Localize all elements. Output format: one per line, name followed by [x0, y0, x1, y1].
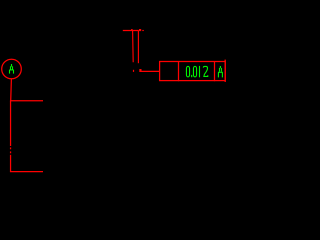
datum reference letter A (green, in frame)	[218, 66, 223, 77]
dimension line (top right)	[123, 30, 139, 32]
top horizontal edge line	[10, 100, 43, 102]
right extension line	[137, 31, 139, 63]
dimension line dash (right of arrows)	[142, 30, 144, 32]
frame divider 1 (after symbol cell)	[178, 61, 180, 81]
left extension line (slight slant)	[132, 31, 135, 62]
right arrowhead	[139, 29, 141, 31]
digit 0	[193, 66, 196, 76]
frame divider 2 (before datum cell)	[214, 61, 216, 81]
bottom horizontal edge line	[10, 171, 43, 173]
datum leader segment from circle (slight slant)	[10, 79, 13, 101]
feature control frame outer box	[160, 62, 226, 81]
tolerance value 0.012 (green)	[186, 66, 207, 77]
left arrowhead	[131, 29, 133, 30]
leader start dot	[139, 69, 141, 72]
datum letter A (green, in circle)	[9, 64, 13, 74]
centerline dot 2	[10, 151, 12, 153]
digit 1	[199, 66, 201, 77]
digit 2	[203, 66, 207, 76]
right edge overshoot (cut off box edge at image border)	[224, 60, 226, 82]
digit 0	[186, 66, 189, 76]
leader line to feature control frame	[142, 70, 160, 72]
centerline dot 1	[10, 147, 12, 149]
part edge vertical line (upper solid)	[10, 101, 12, 146]
decimal point	[191, 75, 192, 77]
small tick below left extension line	[133, 70, 134, 72]
part edge vertical line (lower solid)	[10, 155, 12, 172]
datum circle A	[2, 59, 22, 79]
